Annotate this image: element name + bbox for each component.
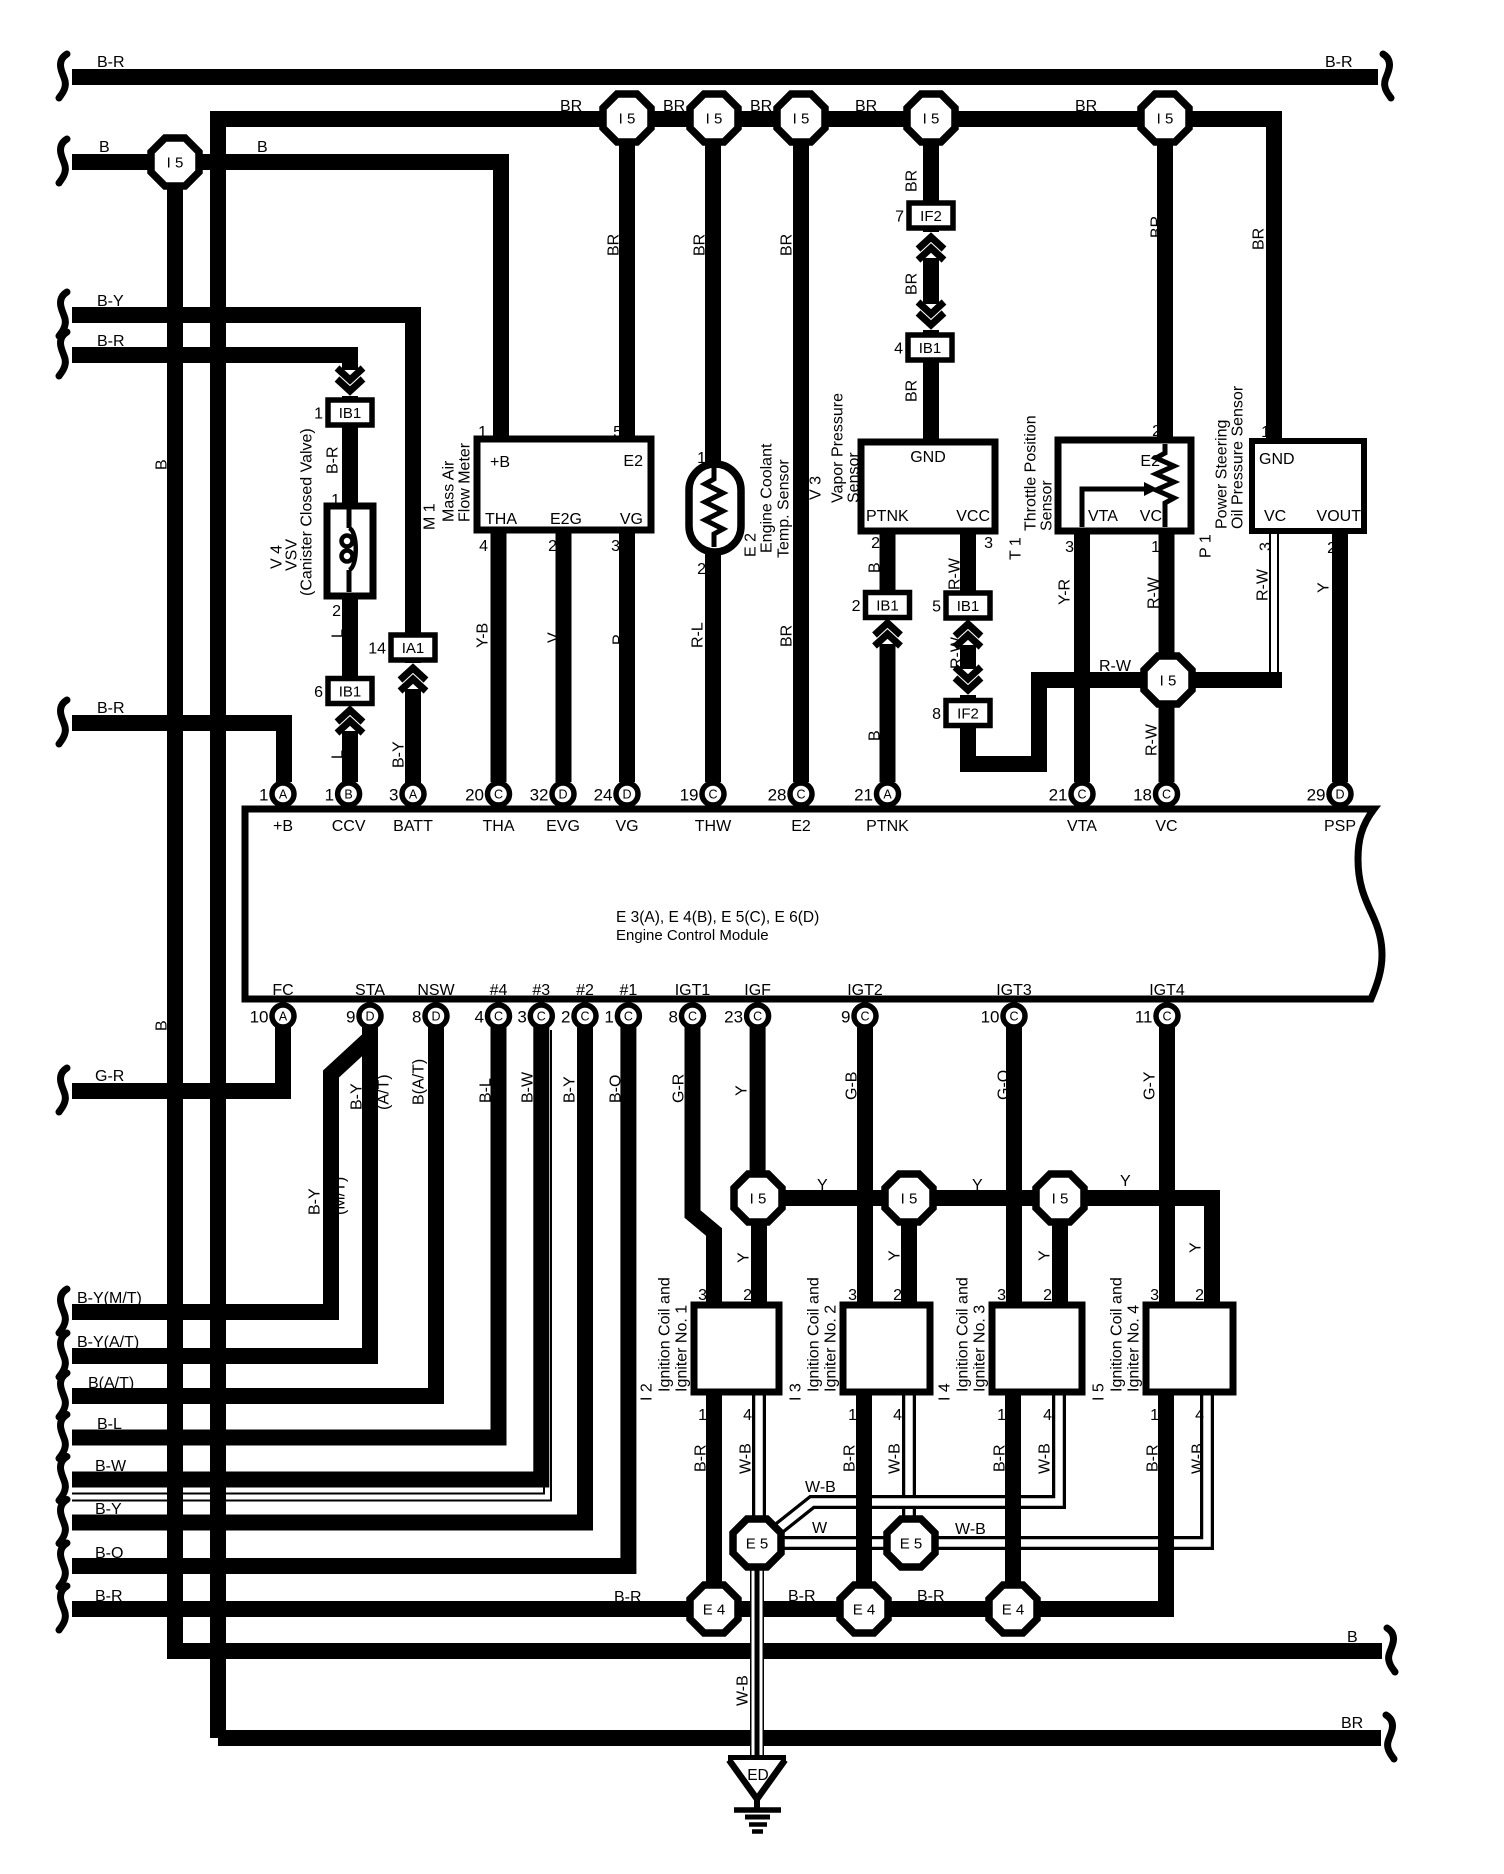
wire B-Y from IA1 to ECM BATT pin	[405, 661, 421, 794]
svg-text:I 2: I 2	[639, 1383, 656, 1401]
svg-text:IGT2: IGT2	[847, 982, 883, 999]
arrow into junction IB1 pin 2	[872, 618, 904, 646]
svg-text:Sensor: Sensor	[846, 452, 863, 503]
svg-text:BR: BR	[1075, 98, 1097, 115]
svg-text:Engine Coolant: Engine Coolant	[759, 443, 776, 553]
wire W-B hollow from E5 to igniter No.4 pin 4	[916, 1392, 1207, 1543]
ECM top pin 1 B CCV	[325, 783, 360, 805]
arrow into junction IB1 pin 6	[334, 705, 366, 733]
svg-text:E 4: E 4	[703, 1602, 726, 1619]
ECM bottom pin 4 C #4	[475, 1005, 510, 1027]
svg-text:W-B: W-B	[955, 1521, 986, 1538]
wire B-Y from ECM #2 pin to left edge	[72, 1016, 585, 1523]
svg-text:5: 5	[932, 599, 941, 616]
svg-text:IB1: IB1	[876, 598, 899, 615]
svg-text:BR: BR	[692, 234, 709, 256]
svg-text:IB1: IB1	[919, 340, 942, 357]
svg-text:THA: THA	[485, 511, 517, 528]
connector IF2 pin 7	[895, 203, 953, 228]
svg-text:R-W: R-W	[1255, 568, 1272, 601]
ignition coil and igniter No. 3 box	[992, 1305, 1082, 1392]
svg-text:1: 1	[604, 1008, 613, 1027]
wire B-R from igniter No.1 pin 1 to E4 node	[706, 1392, 722, 1609]
svg-text:9: 9	[841, 1008, 850, 1027]
ignition coil and igniter No. 1 box	[694, 1305, 779, 1392]
svg-text:BR: BR	[750, 98, 772, 115]
svg-text:2: 2	[332, 603, 341, 620]
svg-text:C: C	[1077, 788, 1086, 802]
svg-text:E2: E2	[791, 818, 811, 835]
svg-text:VG: VG	[615, 818, 638, 835]
svg-text:1: 1	[1261, 424, 1270, 441]
svg-text:Ignition Coil and: Ignition Coil and	[657, 1277, 674, 1392]
vapor pressure sensor V3 box	[861, 442, 995, 531]
svg-text:6: 6	[314, 684, 323, 701]
wire B-R from left edge to ECM +B pin	[72, 723, 284, 782]
svg-text:EVG: EVG	[546, 818, 580, 835]
throttle sensor resistor and wiper arrow	[1156, 444, 1174, 527]
svg-text:E2: E2	[623, 453, 643, 470]
wire B-Y (M/T) diagonal from ECM STA pin to left edge	[72, 1016, 370, 1312]
svg-text:2: 2	[1043, 1287, 1052, 1304]
ECM top pin 3 A BATT	[389, 783, 424, 805]
svg-text:V: V	[546, 632, 563, 643]
wire L from VSV pin 2 to junction IB1 pin 6	[342, 596, 358, 678]
svg-text:E 3(A), E 4(B), E 5(C), E 6(D): E 3(A), E 4(B), E 5(C), E 6(D)	[616, 909, 819, 926]
junction E5 no.1	[733, 1519, 781, 1567]
svg-text:B: B	[867, 730, 884, 741]
svg-text:24: 24	[594, 786, 613, 805]
svg-text:BR: BR	[779, 625, 796, 647]
left break end of B(A/T) wire	[59, 1373, 67, 1417]
svg-text:B-R: B-R	[693, 1444, 710, 1472]
svg-text:VTA: VTA	[1088, 508, 1118, 525]
svg-text:4: 4	[1195, 1407, 1204, 1424]
svg-text:3: 3	[1065, 539, 1074, 556]
svg-text:ED: ED	[747, 1767, 769, 1784]
ECM bottom pin 10 C IGT3	[981, 1005, 1025, 1027]
svg-text:I 3: I 3	[788, 1383, 805, 1401]
right break end of B wire	[1387, 1628, 1395, 1672]
svg-text:VCC: VCC	[956, 508, 990, 525]
wire B-R from IB1 to VSV pin 1	[342, 424, 358, 506]
wire G-R from ECM IGT1 pin with jog to igniter No.1 pin 3	[693, 1016, 715, 1305]
svg-text:(M/T): (M/T)	[332, 1177, 349, 1215]
svg-text:L: L	[330, 750, 347, 759]
svg-text:(A/T): (A/T)	[376, 1074, 393, 1110]
svg-text:VC: VC	[1140, 508, 1162, 525]
wire B-R from igniter No.2 pin 1 to E4 node	[856, 1392, 872, 1609]
wire B-W thin parallel to ECM pin #3 wire	[72, 1030, 548, 1497]
svg-text:D: D	[622, 788, 631, 802]
svg-text:B-R: B-R	[97, 700, 125, 717]
svg-text:IB1: IB1	[339, 684, 362, 701]
svg-text:8: 8	[412, 1008, 421, 1027]
svg-text:B: B	[1347, 1629, 1358, 1646]
svg-text:8: 8	[932, 706, 941, 723]
left break end of B-R wire	[59, 700, 67, 744]
svg-text:C: C	[796, 788, 805, 802]
svg-text:I 5: I 5	[1091, 1383, 1108, 1401]
svg-text:#3: #3	[532, 982, 550, 999]
wire B from left edge through I5 to mass air flow meter +B pin 1	[72, 162, 501, 439]
svg-text:4: 4	[1043, 1407, 1052, 1424]
svg-text:V 3: V 3	[808, 476, 825, 500]
svg-text:G-B: G-B	[844, 1072, 861, 1100]
svg-text:Y: Y	[817, 1177, 828, 1194]
svg-text:BR: BR	[904, 170, 921, 192]
arrow up of double arrow to IF2 pin 7	[915, 232, 947, 260]
svg-text:VOUT: VOUT	[1317, 508, 1362, 525]
svg-text:1: 1	[925, 428, 934, 445]
svg-text:(Canister Closed Valve): (Canister Closed Valve)	[299, 428, 316, 596]
engine coolant temp sensor E2 oval	[689, 464, 741, 552]
wire Y from I5 node to igniter No.2 pin 2	[901, 1198, 917, 1305]
svg-text:G-O: G-O	[996, 1070, 1013, 1100]
svg-text:B-Y(M/T): B-Y(M/T)	[77, 1290, 142, 1307]
svg-text:A: A	[279, 788, 288, 802]
svg-text:W-B: W-B	[735, 1675, 752, 1706]
svg-text:W-B: W-B	[1190, 1443, 1207, 1474]
svg-text:B: B	[867, 562, 884, 573]
wire W hollow between E5 junctions	[762, 1536, 906, 1550]
svg-text:C: C	[494, 1010, 503, 1024]
svg-text:23: 23	[724, 1008, 743, 1027]
ECM bottom pin 3 C #3	[517, 1005, 552, 1027]
wire V from mass air flow meter E2G to ECM EVG pin	[556, 530, 572, 782]
svg-text:THA: THA	[483, 818, 515, 835]
junction I5 on BR bus no.4	[907, 94, 955, 142]
svg-text:Igniter No. 2: Igniter No. 2	[823, 1305, 840, 1392]
svg-text:2: 2	[1195, 1287, 1204, 1304]
svg-text:B-Y: B-Y	[391, 741, 408, 768]
svg-text:B-R: B-R	[325, 446, 342, 474]
svg-text:VTA: VTA	[1067, 818, 1097, 835]
svg-text:B-O: B-O	[608, 1075, 625, 1103]
svg-text:BR: BR	[904, 273, 921, 295]
svg-text:B: B	[344, 788, 352, 802]
ECM top pin 29 D PSP	[1307, 783, 1351, 805]
svg-text:B-O: B-O	[95, 1545, 123, 1562]
svg-text:B(A/T): B(A/T)	[88, 1375, 134, 1392]
svg-text:B-R: B-R	[97, 333, 125, 350]
ECM top pin 21 C VTA	[1049, 783, 1093, 805]
left break end of B-L wire	[59, 1415, 67, 1459]
wire R-W between IB1 and IF2 pin 8	[960, 618, 976, 700]
svg-text:I 5: I 5	[706, 111, 723, 128]
svg-text:Engine Control Module: Engine Control Module	[616, 927, 769, 944]
svg-text:A: A	[883, 788, 892, 802]
svg-text:PSP: PSP	[1324, 818, 1356, 835]
ECM bottom pin 8 C IGT1	[669, 1005, 704, 1027]
svg-text:3: 3	[997, 1287, 1006, 1304]
svg-text:P 1: P 1	[1198, 534, 1215, 558]
svg-text:BR: BR	[663, 98, 685, 115]
ECM top pin 32 D EVG	[530, 783, 574, 805]
svg-text:7: 7	[895, 209, 904, 226]
left break end of B wire	[59, 139, 67, 183]
ECM top pin 28 C E2	[768, 783, 812, 805]
svg-text:Power Steering: Power Steering	[1214, 420, 1231, 529]
mass air flow meter M1 box	[477, 439, 651, 530]
junction I5 on Y wire no.2	[885, 1174, 933, 1222]
svg-text:B-R: B-R	[842, 1444, 859, 1472]
svg-text:B-W: B-W	[520, 1071, 537, 1103]
svg-text:I 5: I 5	[619, 111, 636, 128]
wire G-O from ECM IGT3 pin to igniter No.3 pin 3	[1006, 1016, 1022, 1305]
svg-text:B-R: B-R	[614, 1589, 642, 1606]
svg-text:Throttle Position: Throttle Position	[1023, 415, 1040, 531]
svg-text:4: 4	[743, 1407, 752, 1424]
wire W-B hollow from igniter No.1 pin 4 down to E5	[752, 1392, 766, 1536]
svg-text:B-Y(A/T): B-Y(A/T)	[77, 1334, 139, 1351]
svg-text:E2G: E2G	[550, 511, 582, 528]
svg-text:Oil Pressure Sensor: Oil Pressure Sensor	[1230, 385, 1247, 529]
svg-text:1: 1	[1150, 1407, 1159, 1424]
svg-text:I 5: I 5	[901, 1191, 918, 1208]
connector IB1 pin 2	[852, 593, 910, 618]
svg-text:B-Y: B-Y	[97, 293, 124, 310]
svg-text:3: 3	[611, 538, 620, 555]
connector IF2 pin 8	[932, 701, 990, 726]
svg-text:20: 20	[465, 786, 484, 805]
svg-text:+B: +B	[273, 818, 293, 835]
svg-text:L: L	[330, 629, 347, 638]
svg-text:IB1: IB1	[339, 405, 362, 422]
wire BR from I5 to ECM E2 pin	[793, 141, 809, 782]
svg-text:19: 19	[680, 786, 699, 805]
svg-text:Y: Y	[1120, 1173, 1131, 1190]
svg-text:IF2: IF2	[957, 706, 979, 723]
svg-text:3: 3	[698, 1287, 707, 1304]
svg-text:R-W: R-W	[949, 636, 966, 669]
svg-text:3: 3	[848, 1287, 857, 1304]
junction E4 no.2	[840, 1585, 888, 1633]
wire R-W from IF2 through jog and I5 node toward P1 VC	[968, 680, 1282, 764]
svg-text:29: 29	[1307, 786, 1326, 805]
svg-text:C: C	[1162, 1010, 1171, 1024]
svg-text:2: 2	[548, 538, 557, 555]
wire W-B shielded cable from E5 node down to ED ground	[750, 1548, 764, 1757]
svg-text:#4: #4	[490, 982, 508, 999]
wire B from vapor pressure sensor PTNK pin 2 to IB1	[880, 531, 896, 593]
left break end of B-W wire	[59, 1457, 67, 1501]
wire BR from IB1 to vapor pressure sensor GND pin 1	[923, 360, 939, 442]
wire W-B hollow from igniter No.2 pin 4 down to E5	[902, 1392, 916, 1536]
svg-text:B-R: B-R	[95, 1588, 123, 1605]
svg-text:4: 4	[894, 341, 903, 358]
svg-text:1: 1	[325, 786, 334, 805]
svg-text:Ignition Coil and: Ignition Coil and	[806, 1277, 823, 1392]
svg-text:R-L: R-L	[690, 622, 707, 648]
svg-text:B-W: B-W	[95, 1458, 127, 1475]
wire B from IB1 to ECM PTNK pin	[880, 617, 896, 782]
wire R-W from throttle sensor VC pin 1 through I5 to ECM VC pin	[1159, 531, 1175, 782]
wire BR from I5 to mass air flow meter E2 pin 5	[619, 141, 635, 439]
svg-text:IA1: IA1	[402, 640, 425, 657]
svg-text:B-R: B-R	[1325, 54, 1353, 71]
svg-text:W-B: W-B	[805, 1479, 836, 1496]
VSV V4 canister closed valve box	[327, 506, 373, 596]
ECM top pin 18 C VC	[1133, 783, 1177, 805]
svg-text:9: 9	[346, 1008, 355, 1027]
svg-text:B: B	[154, 1020, 171, 1031]
svg-text:BR: BR	[904, 380, 921, 402]
wire B-R bottom bus from left edge through E4 nodes to igniter No.4 pin 1	[72, 1392, 1166, 1609]
svg-text:21: 21	[854, 786, 873, 805]
svg-text:I 5: I 5	[1160, 673, 1177, 690]
wire Y from P1 VOUT pin 2 to ECM PSP pin	[1332, 531, 1348, 782]
svg-text:B-Y: B-Y	[307, 1188, 324, 1215]
wire BR / R-L through engine coolant temp sensor to ECM THW pin	[705, 141, 721, 782]
svg-text:2: 2	[697, 561, 706, 578]
svg-text:2: 2	[743, 1287, 752, 1304]
svg-text:W-B: W-B	[1037, 1443, 1054, 1474]
svg-text:Sensor: Sensor	[1039, 480, 1056, 531]
svg-text:P: P	[611, 634, 628, 645]
svg-text:NSW: NSW	[417, 982, 455, 999]
wire B long vertical drop and bottom run to right edge	[175, 162, 1382, 1651]
svg-text:W-B: W-B	[738, 1443, 755, 1474]
svg-text:R-W: R-W	[1144, 723, 1161, 756]
left break end of B-R wire	[59, 1586, 67, 1630]
VSV coil symbol	[347, 508, 352, 528]
svg-text:IGF: IGF	[744, 982, 771, 999]
svg-text:C: C	[624, 1010, 633, 1024]
wire G-B from ECM IGT2 pin to igniter No.2 pin 3	[857, 1016, 873, 1305]
connector IA1 pin 14	[368, 635, 435, 660]
svg-text:PTNK: PTNK	[866, 818, 909, 835]
svg-text:VC: VC	[1264, 508, 1286, 525]
svg-text:3: 3	[389, 786, 398, 805]
svg-text:I 5: I 5	[750, 1191, 767, 1208]
wire Y from I5 node to igniter No.1 pin 2	[751, 1198, 767, 1305]
svg-text:1: 1	[331, 492, 340, 509]
right break end of BR wire	[1386, 1715, 1394, 1759]
svg-text:Igniter No. 4: Igniter No. 4	[1126, 1305, 1143, 1392]
svg-text:E 4: E 4	[853, 1602, 876, 1619]
svg-text:D: D	[1335, 788, 1344, 802]
svg-text:BR: BR	[779, 234, 796, 256]
svg-text:C: C	[1162, 788, 1171, 802]
svg-text:Ignition Coil and: Ignition Coil and	[955, 1277, 972, 1392]
svg-text:BR: BR	[1251, 228, 1268, 250]
ECM top pin 24 D VG	[594, 783, 638, 805]
svg-text:B: B	[99, 139, 110, 156]
wire B-R top bus	[72, 69, 1378, 85]
svg-text:D: D	[365, 1010, 374, 1024]
svg-text:R-W: R-W	[947, 557, 964, 590]
svg-text:B: B	[257, 139, 268, 156]
svg-text:R-W: R-W	[1099, 658, 1132, 675]
svg-text:Igniter No. 1: Igniter No. 1	[674, 1305, 691, 1392]
svg-text:4: 4	[893, 1407, 902, 1424]
connector IB1 pin 5	[932, 593, 990, 618]
connector IB1 pin 1	[314, 400, 372, 425]
svg-text:#1: #1	[620, 982, 638, 999]
svg-text:B-Y: B-Y	[95, 1501, 122, 1518]
wire L from IB1 to ECM CCV pin	[342, 704, 358, 782]
left break end of B-Y(M/T) wire	[59, 1289, 67, 1333]
wire Y-B from mass air flow meter THA to ECM THA pin	[491, 530, 507, 782]
wire B-R from igniter No.3 pin 1 to E4 node	[1005, 1392, 1021, 1609]
engine coolant temp sensor resistor symbol	[705, 467, 723, 547]
junction I5 on Y wire no.1	[734, 1174, 782, 1222]
svg-text:B-R: B-R	[97, 54, 125, 71]
left break end of B-Y(A/T) wire	[59, 1333, 67, 1377]
svg-text:1: 1	[697, 450, 706, 467]
svg-text:10: 10	[981, 1008, 1000, 1027]
svg-text:G-R: G-R	[671, 1074, 688, 1103]
svg-text:Flow Meter: Flow Meter	[457, 442, 474, 522]
svg-text:Ignition Coil and: Ignition Coil and	[1109, 1277, 1126, 1392]
left break end of B-Y wire	[59, 1500, 67, 1544]
svg-text:B-R: B-R	[788, 1588, 816, 1605]
ECM bottom pin 10 A FC	[250, 1005, 294, 1027]
svg-text:VG: VG	[620, 511, 643, 528]
svg-text:C: C	[494, 788, 503, 802]
svg-text:C: C	[1009, 1010, 1018, 1024]
svg-text:IF2: IF2	[920, 208, 942, 225]
arrow into junction IB1 pin 1	[334, 368, 366, 396]
ECM bottom pin 8 D NSW	[412, 1005, 447, 1027]
svg-text:BATT: BATT	[393, 818, 433, 835]
svg-text:3: 3	[1150, 1287, 1159, 1304]
wire R-W from vapor pressure sensor VCC pin 3 to IB1 pin 5	[960, 531, 976, 593]
svg-text:11: 11	[1135, 1008, 1153, 1027]
svg-text:B-L: B-L	[478, 1078, 495, 1103]
svg-text:14: 14	[368, 641, 386, 658]
wire B-W from ECM #3 pin to left edge	[72, 1016, 541, 1480]
power steering oil pressure sensor P1 box	[1252, 441, 1364, 531]
wire BR from I5 to throttle sensor E2 pin 2	[1157, 141, 1173, 440]
ECM bottom pin 2 C #2	[561, 1005, 596, 1027]
svg-text:4: 4	[479, 538, 488, 555]
ECM E3(A) E4(B) E5(C) E6(D) Engine Control Module box with torn right edge	[245, 809, 1382, 999]
ECM top pin 21 A PTNK	[854, 783, 898, 805]
left break end of G-R wire	[59, 1068, 67, 1112]
ECM bottom pin 11 C IGT4	[1135, 1005, 1178, 1027]
throttle position sensor T1 box	[1058, 440, 1191, 531]
svg-text:B: B	[154, 459, 171, 470]
wire BR from I5 to junction IF2 pin 7	[923, 141, 939, 203]
wire B-Y (A/T) from ECM STA pin to left edge	[72, 1016, 370, 1356]
svg-text:1: 1	[698, 1407, 707, 1424]
left break end of B-Y wire	[59, 292, 67, 336]
svg-text:Y: Y	[736, 1252, 753, 1263]
left break end of B-R wire	[59, 332, 67, 376]
ground ED	[728, 1755, 786, 1763]
svg-text:3: 3	[984, 535, 993, 552]
arrow up of double arrow IB1 pin 5	[952, 619, 984, 647]
svg-text:1: 1	[1151, 539, 1160, 556]
junction E5 no.2	[887, 1519, 935, 1567]
svg-text:3: 3	[1258, 542, 1275, 551]
svg-text:D: D	[558, 788, 567, 802]
ECM bottom pin 1 C #1	[604, 1005, 639, 1027]
svg-text:C: C	[537, 1010, 546, 1024]
junction I5 on BR bus no.5	[1141, 94, 1189, 142]
svg-text:GND: GND	[910, 449, 946, 466]
svg-text:STA: STA	[355, 982, 385, 999]
svg-text:28: 28	[768, 786, 787, 805]
svg-text:8: 8	[669, 1008, 678, 1027]
wire B-R from left edge to junction IB1 pin 1	[72, 355, 350, 401]
svg-text:BR: BR	[1149, 216, 1166, 238]
wire B(A/T) from ECM NSW pin to left edge	[72, 1016, 436, 1396]
junction I5 on BR bus no.3	[777, 94, 825, 142]
junction I5 on R-W wire	[1144, 656, 1192, 704]
